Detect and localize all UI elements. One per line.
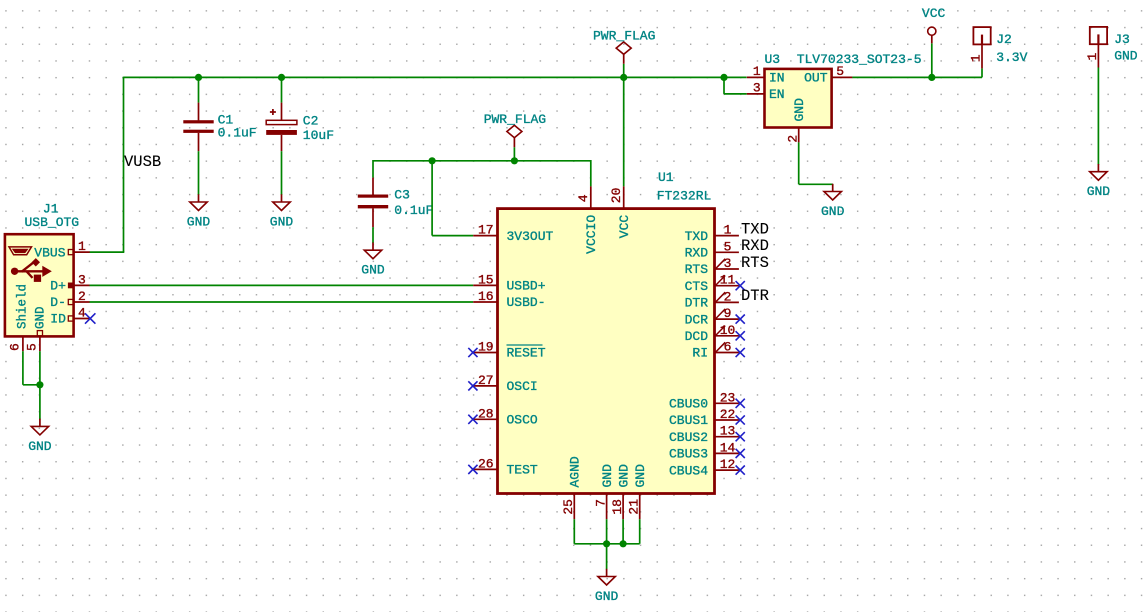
svg-text:J2: J2 [996,32,1012,47]
svg-text:5: 5 [724,239,732,254]
svg-text:23: 23 [720,390,736,405]
svg-text:CTS: CTS [685,279,709,294]
svg-text:OSCO: OSCO [507,413,538,428]
svg-text:RTS: RTS [741,254,769,272]
svg-text:PWR_FLAG: PWR_FLAG [484,112,546,127]
svg-text:2: 2 [724,289,732,304]
svg-text:C2: C2 [303,113,319,128]
svg-text:15: 15 [478,272,494,287]
svg-text:CBUS0: CBUS0 [669,397,708,412]
svg-text:26: 26 [478,456,494,471]
svg-text:6: 6 [724,340,732,355]
svg-text:USBD+: USBD+ [507,279,546,294]
svg-text:28: 28 [478,406,494,421]
svg-text:EN: EN [769,87,785,102]
svg-text:4: 4 [576,194,591,202]
svg-text:CBUS3: CBUS3 [669,447,708,462]
svg-text:12: 12 [720,457,736,472]
svg-text:DCD: DCD [685,329,709,344]
svg-text:AGND: AGND [568,456,583,487]
svg-text:5: 5 [24,343,39,351]
svg-text:CBUS1: CBUS1 [669,413,708,428]
svg-text:22: 22 [720,407,736,422]
svg-text:GND: GND [28,439,52,454]
svg-text:3: 3 [724,256,732,271]
svg-text:VUSB: VUSB [124,153,161,171]
svg-text:U3: U3 [765,52,781,67]
svg-text:GND: GND [187,215,211,230]
svg-text:GND: GND [633,464,648,488]
svg-text:GND: GND [821,204,845,219]
svg-text:RTS: RTS [685,262,709,277]
svg-text:1: 1 [1085,53,1100,61]
svg-text:J3: J3 [1114,32,1130,47]
svg-text:TXD: TXD [685,229,709,244]
svg-text:DCR: DCR [685,312,709,327]
svg-text:GND: GND [270,215,294,230]
svg-text:GND: GND [33,306,47,329]
svg-text:1: 1 [78,239,86,254]
svg-text:DTR: DTR [685,296,709,311]
svg-text:GND: GND [600,464,615,488]
svg-text:3V3OUT: 3V3OUT [507,229,554,244]
svg-text:1: 1 [968,54,983,62]
svg-text:RI: RI [692,346,708,361]
svg-text:TLV70233_SOT23-5: TLV70233_SOT23-5 [797,52,922,67]
svg-text:6: 6 [7,343,22,351]
svg-text:VCC: VCC [922,6,946,21]
svg-text:IN: IN [769,70,785,85]
svg-text:2: 2 [785,135,800,143]
svg-text:RXD: RXD [741,237,769,255]
svg-text:27: 27 [478,373,494,388]
svg-text:14: 14 [720,440,736,455]
svg-text:GND: GND [361,263,385,278]
svg-text:3: 3 [753,81,761,96]
svg-text:7: 7 [593,499,608,507]
svg-text:GND: GND [1114,48,1138,63]
svg-text:16: 16 [478,289,494,304]
svg-text:U1: U1 [658,170,674,185]
svg-text:0.1uF: 0.1uF [218,126,257,141]
svg-text:25: 25 [561,499,576,515]
svg-text:3: 3 [78,272,86,287]
svg-text:4: 4 [78,306,86,321]
svg-text:1: 1 [724,223,732,238]
svg-text:11: 11 [720,273,736,288]
svg-text:VBUS: VBUS [34,245,65,260]
svg-text:CBUS2: CBUS2 [669,430,708,445]
svg-text:GND: GND [595,589,619,604]
svg-text:2: 2 [78,289,86,304]
svg-text:VCCIO: VCCIO [584,215,599,254]
svg-text:1: 1 [753,64,761,79]
svg-text:21: 21 [627,499,642,515]
svg-text:C3: C3 [394,187,410,202]
svg-text:RXD: RXD [685,246,709,261]
svg-text:5: 5 [836,64,844,79]
svg-text:10uF: 10uF [303,128,334,143]
svg-text:D-: D- [50,295,66,310]
svg-text:3.3V: 3.3V [996,50,1027,65]
svg-text:USB_OTG: USB_OTG [25,215,80,230]
svg-text:20: 20 [609,188,624,204]
svg-text:PWR_FLAG: PWR_FLAG [593,28,655,43]
svg-text:FT232RL: FT232RL [657,188,712,203]
svg-text:GND: GND [1087,184,1111,199]
svg-text:TXD: TXD [741,220,769,238]
svg-text:GND: GND [792,98,807,122]
svg-text:10: 10 [720,323,736,338]
svg-text:0.1uF: 0.1uF [394,203,433,218]
svg-text:13: 13 [720,424,736,439]
svg-text:ID: ID [50,312,66,327]
svg-text:19: 19 [478,340,494,355]
svg-text:D+: D+ [50,279,66,294]
svg-text:Shield: Shield [16,284,30,329]
svg-text:CBUS4: CBUS4 [669,463,708,478]
svg-text:GND: GND [616,464,631,488]
svg-text:RESET: RESET [507,346,546,361]
svg-text:17: 17 [478,223,494,238]
svg-text:DTR: DTR [741,287,769,305]
svg-text:VCC: VCC [617,215,632,239]
svg-text:9: 9 [724,306,732,321]
svg-text:USBD-: USBD- [507,295,546,310]
svg-text:OSCI: OSCI [507,379,538,394]
svg-text:TEST: TEST [507,463,538,478]
svg-text:OUT: OUT [804,70,828,85]
svg-text:18: 18 [610,499,625,515]
